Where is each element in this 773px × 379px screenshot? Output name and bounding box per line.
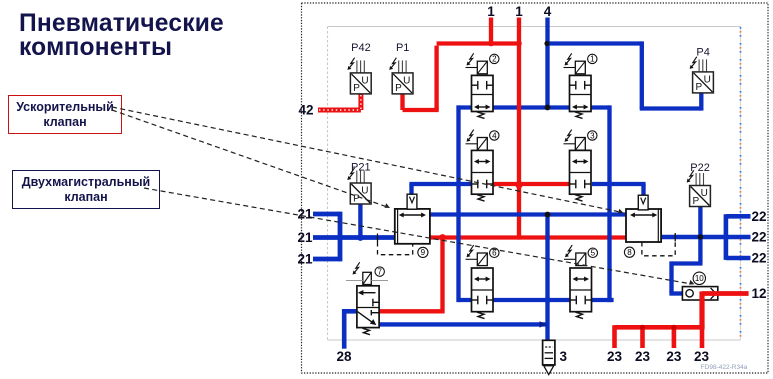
svg-text:FD98-422-R34a: FD98-422-R34a (701, 364, 748, 371)
svg-text:U: U (704, 74, 711, 85)
wire port 23b stub (640, 327, 645, 348)
svg-text:U: U (403, 75, 410, 86)
wire 21 manifold vertical x=340 (338, 212, 343, 262)
wire port 23 manifold header (615, 325, 705, 330)
wire port 23c stub (672, 327, 677, 348)
wire port 12 from valve10 (702, 291, 749, 296)
wire port 21b line into valve9 (313, 235, 396, 240)
leader line A: label1 to relay valve 9 (112, 110, 385, 206)
valve 4 (3/2 solenoid valve) (466, 130, 499, 202)
svg-text:5: 5 (591, 249, 596, 258)
pressure sensor P22 (687, 162, 711, 207)
valve 10 (two-way / double check valve) (682, 272, 717, 300)
svg-text:22: 22 (752, 209, 767, 224)
wire port4 branch right y=43.5 (545, 41, 641, 45)
wire P4 stub (699, 93, 703, 111)
junction exhaust / relay top line (545, 212, 551, 218)
junction port1a / supply line (488, 41, 494, 47)
svg-text:28: 28 (336, 349, 352, 364)
wire valve10 bottom outlet down (699, 291, 704, 327)
relay valve 9 (accelerator valve, op-amp style box) (378, 194, 430, 257)
wire port 42 dotted red line (318, 108, 361, 113)
pressure sensor P42 (347, 42, 371, 94)
inner frame right edge colored dots (740, 27, 742, 339)
wire valve9 pilot drop (409, 184, 413, 197)
junction port4 branch (544, 41, 549, 46)
wire port 1b upper (over row1 blue) (517, 18, 521, 111)
svg-text:4: 4 (544, 4, 552, 19)
junction x547 / row3 (544, 297, 550, 303)
label box: accelerator valve (8, 95, 122, 134)
wire long vertical x=458.5 (456, 105, 460, 302)
svg-text:P21: P21 (351, 162, 371, 174)
wire valve7 lower output y=324.4 (379, 322, 548, 326)
valve 1 (3/2 solenoid valve) (564, 53, 598, 118)
wire port 28 drop (342, 309, 347, 349)
svg-text:P: P (353, 83, 360, 94)
svg-text:22: 22 (752, 251, 767, 266)
svg-text:21: 21 (297, 230, 313, 245)
wire exhaust vertical to silencer x=547.5 (545, 212, 549, 341)
svg-text:21: 21 (297, 207, 313, 222)
flow arrow on valve7 output line (540, 321, 548, 327)
wire valve8 pilot drop (641, 184, 645, 198)
svg-text:12: 12 (752, 286, 767, 301)
svg-text:23: 23 (666, 349, 682, 364)
svg-text:P: P (692, 196, 699, 207)
wire down x=641.8 (640, 41, 644, 108)
svg-text:3: 3 (560, 349, 568, 364)
svg-text:2: 2 (492, 55, 497, 64)
valve 9 pilot box (407, 194, 417, 209)
junction port1b / row2 (515, 181, 522, 188)
svg-text:8: 8 (627, 248, 632, 257)
relay valve 8 (accelerator valve, op-amp style box) (624, 195, 675, 257)
wire port 23a stub (612, 325, 617, 348)
svg-text:P: P (395, 83, 402, 94)
valve 8 pilot box (638, 195, 648, 210)
title (19, 12, 224, 60)
pressure sensor P21 (347, 162, 371, 205)
valve 3 (3/2 solenoid valve) (564, 130, 598, 202)
svg-text:P42: P42 (351, 42, 371, 54)
valve 8 dashed feedback bracket (674, 233, 676, 242)
valve 9 dashed feedback bracket (377, 234, 379, 243)
wire into valve10 left port (669, 291, 682, 295)
label box: two-way valve (12, 170, 160, 209)
wire port 1b lower vertical (under relay blue) (517, 108, 521, 240)
wire row3 through valves 6,5 y=300 (459, 298, 614, 302)
wire P22 drop continuing down (698, 207, 702, 264)
wire port 22 main line from valve8 (661, 235, 751, 240)
wire port 23d stub (700, 327, 705, 348)
wire to P1 y=110 (403, 108, 439, 112)
svg-text:1: 1 (487, 4, 495, 19)
wire left to x=671.5 (672, 261, 703, 265)
wire row2 red valve4-valve3 y=184 (480, 182, 570, 186)
junction P21 / 21 line (357, 234, 364, 241)
wire relay top line y=214.5 (430, 212, 627, 216)
wire port 21a stub (313, 212, 340, 217)
svg-text:7: 7 (377, 267, 382, 276)
valve 6 (3/2 solenoid valve) (466, 245, 499, 319)
junction P22 / 22 line (698, 234, 703, 239)
wire valve7 left port (344, 309, 357, 314)
svg-text:U: U (701, 188, 708, 199)
wire red branch down at x=442.5 (440, 235, 444, 311)
svg-text:42: 42 (298, 103, 313, 118)
wire port 22c stub (726, 256, 751, 261)
svg-text:10: 10 (695, 274, 704, 283)
svg-text:22: 22 (752, 230, 767, 245)
junction port4 / row1 (545, 105, 551, 111)
junction 23 manifold (640, 325, 645, 330)
svg-text:P: P (695, 82, 702, 93)
wire P1 riser x=436.6 (434, 46, 438, 110)
svg-text:P4: P4 (696, 47, 709, 59)
svg-text:23: 23 (607, 349, 623, 364)
wire P21 drop (358, 204, 362, 238)
svg-text:9: 9 (421, 248, 426, 257)
inner gray frame (328, 26, 741, 28)
svg-text:21: 21 (297, 252, 313, 267)
wire port 22a stub (726, 214, 751, 219)
wire 22 manifold vertical x=725.9 (724, 214, 729, 260)
wire port 21c stub (313, 257, 340, 262)
svg-text:P22: P22 (690, 162, 710, 174)
svg-text:P1: P1 (396, 42, 409, 54)
junction 21 manifold (337, 234, 343, 240)
svg-text:1: 1 (515, 4, 523, 19)
svg-text:23: 23 (694, 349, 710, 364)
svg-text:1: 1 (590, 55, 595, 64)
wire port 1a stub (489, 18, 493, 46)
wire relay output line valve9-to-valve8 (red, y=237.5) (429, 235, 628, 239)
leader line B: label1 to relay valve 8 (112, 107, 618, 212)
svg-text:23: 23 (635, 349, 651, 364)
valve 7 (3/2 solenoid valve) (346, 262, 388, 334)
svg-text:3: 3 (590, 131, 595, 140)
wire row2 left blue y=184 (409, 182, 471, 186)
junction supply line end (516, 41, 522, 47)
wire red into valve7 right port (379, 309, 445, 313)
valve 5 (3/2 solenoid valve) (564, 245, 598, 319)
silencer port 3 (543, 340, 555, 374)
junction 23 manifold 2 (671, 325, 676, 330)
wire down to valve10 (669, 261, 673, 293)
wire supply 1 top horizontal y=43.5 (437, 41, 519, 45)
wire to P4 y=108.5 (640, 106, 702, 110)
leader line C: label2 to valve 10 (144, 188, 690, 284)
pressure sensor P4 (690, 47, 714, 94)
valve 2 (3/2 solenoid valve) (466, 53, 499, 118)
junction red branch x=442.5 (439, 234, 446, 241)
pressure sensor P1 (389, 42, 413, 94)
wire supply row1 through valves 2,1 y=107.5 (459, 105, 610, 109)
svg-text:U: U (361, 186, 368, 197)
wire row2 right blue to valve8 pilot (592, 182, 646, 186)
svg-text:U: U (361, 75, 368, 86)
wire P1 stub (400, 95, 404, 111)
wire long vertical x=609.5 valve1 output (607, 105, 611, 302)
outer dashed border of schematic sheet (302, 3, 769, 373)
svg-text:4: 4 (492, 131, 497, 140)
wire port 4 drop (545, 18, 549, 110)
